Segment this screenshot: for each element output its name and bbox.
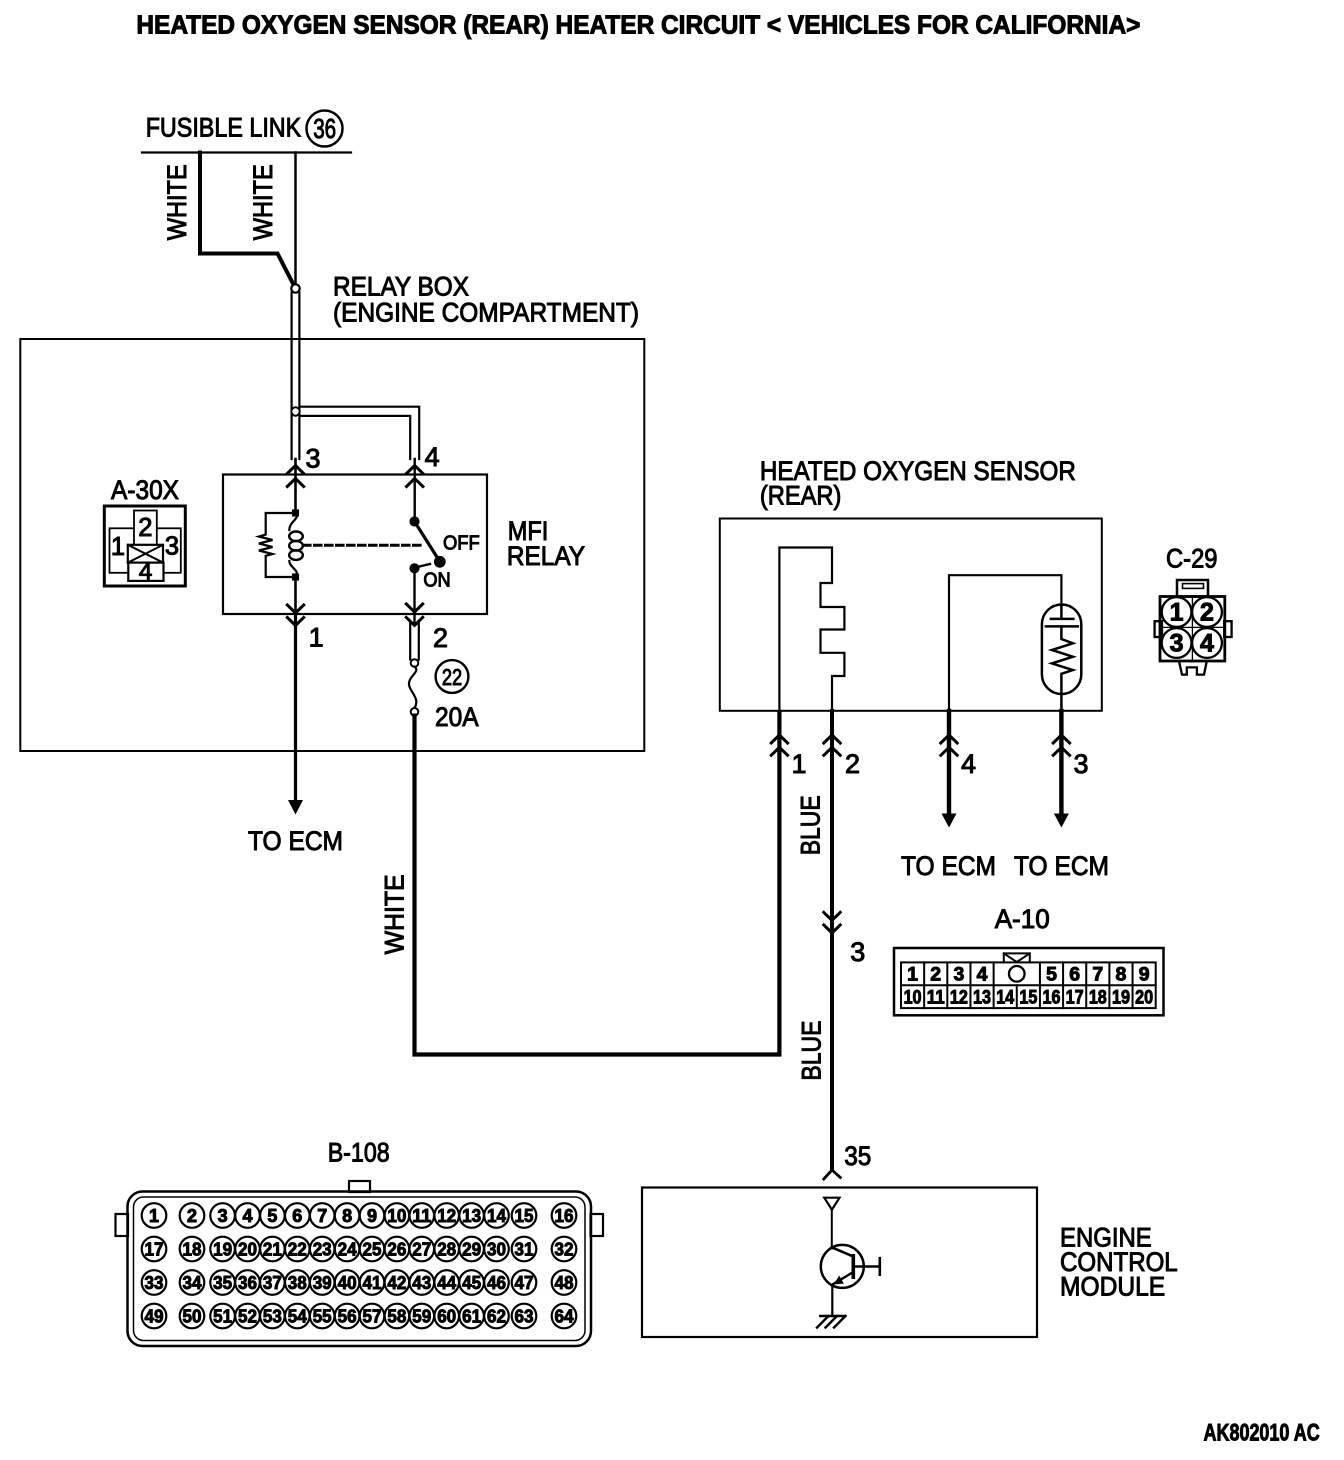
wire pin3 to coil: [294, 459, 297, 513]
svg-text:FUSIBLE LINK: FUSIBLE LINK: [146, 113, 302, 143]
fuse bottom bead: [411, 708, 419, 716]
sensor zirconia element: [779, 548, 844, 712]
svg-text:3: 3: [218, 1206, 228, 1226]
svg-text:ON: ON: [423, 569, 450, 591]
connector C-29 bottom tab: [1179, 661, 1207, 675]
svg-text:17: 17: [145, 1239, 164, 1259]
relay dashed actuation line: [304, 544, 425, 547]
svg-text:19: 19: [1112, 987, 1130, 1009]
connector C-29 pin4: [1192, 628, 1222, 658]
svg-text:WHITE: WHITE: [248, 164, 278, 240]
svg-text:13: 13: [462, 1206, 481, 1226]
sensor pin3 chevrons: [1053, 735, 1069, 743]
svg-text:7: 7: [317, 1206, 327, 1226]
svg-text:13: 13: [973, 987, 991, 1009]
svg-text:5: 5: [1046, 964, 1057, 986]
svg-text:1: 1: [792, 749, 807, 779]
double wire down to pin 3: [291, 293, 293, 460]
fusible link bus wire: [142, 151, 351, 153]
ECM box: [642, 1188, 1037, 1338]
svg-text:TO ECM: TO ECM: [1014, 851, 1109, 881]
svg-text:1: 1: [309, 623, 324, 653]
coil bottom junction: [292, 574, 299, 581]
svg-text:19: 19: [213, 1239, 232, 1259]
svg-text:35: 35: [213, 1273, 232, 1293]
heater plate 1: [1051, 618, 1074, 621]
svg-text:9: 9: [367, 1206, 377, 1226]
ECM wire to transistor: [831, 1210, 833, 1249]
svg-text:20A: 20A: [435, 702, 479, 732]
svg-text:1: 1: [907, 964, 918, 986]
svg-text:15: 15: [1019, 987, 1037, 1009]
svg-text:42: 42: [387, 1273, 406, 1293]
svg-text:12: 12: [950, 987, 968, 1009]
wire pin4 to switch: [414, 459, 416, 522]
heater capsule: [1042, 605, 1081, 695]
svg-text:18: 18: [183, 1239, 202, 1259]
svg-text:21: 21: [263, 1239, 282, 1259]
svg-text:38: 38: [288, 1273, 307, 1293]
svg-text:39: 39: [313, 1273, 332, 1293]
blue wire chevrons: [824, 912, 840, 920]
wire switch to pin2: [413, 568, 415, 623]
svg-text:MODULE: MODULE: [1060, 1272, 1165, 1302]
svg-text:53: 53: [263, 1306, 282, 1326]
svg-text:14: 14: [487, 1206, 506, 1226]
svg-text:3: 3: [305, 444, 320, 474]
svg-text:10: 10: [904, 987, 922, 1009]
svg-text:25: 25: [363, 1239, 382, 1259]
connector C-29 body: [1160, 597, 1225, 662]
fuse element squiggle: [409, 667, 416, 708]
svg-text:WHITE: WHITE: [379, 874, 409, 954]
svg-text:16: 16: [555, 1206, 574, 1226]
svg-text:A-30X: A-30X: [111, 475, 179, 505]
svg-text:8: 8: [1116, 964, 1127, 986]
fuse circle 22: [436, 660, 469, 693]
svg-text:3: 3: [1170, 630, 1184, 658]
sensor heater feed wire: [949, 575, 1061, 711]
sensor box outline: [720, 519, 1102, 711]
svg-text:62: 62: [487, 1306, 506, 1326]
double wire elbow to pin 4: [300, 407, 419, 459]
svg-text:3: 3: [1074, 749, 1089, 779]
svg-text:28: 28: [437, 1239, 456, 1259]
svg-text:58: 58: [387, 1306, 406, 1326]
svg-text:48: 48: [555, 1273, 574, 1293]
svg-text:3: 3: [165, 533, 179, 561]
sensor pin2 chevrons: [824, 735, 840, 743]
sensor pin1 chevrons: [771, 735, 787, 743]
svg-text:4: 4: [242, 1206, 252, 1226]
svg-text:10: 10: [387, 1206, 406, 1226]
heater plate 2: [1046, 625, 1078, 628]
connector C-29 cross lines: [1191, 597, 1193, 662]
svg-text:41: 41: [363, 1273, 382, 1293]
svg-text:11: 11: [412, 1206, 431, 1226]
connector B-108 body: [349, 1181, 370, 1192]
svg-text:16: 16: [1043, 987, 1061, 1009]
svg-text:1: 1: [111, 533, 125, 561]
connector C-29 pin1: [1162, 597, 1192, 627]
svg-text:9: 9: [1139, 964, 1150, 986]
wire white fuse run: [415, 713, 780, 1055]
transistor emitter: [833, 1272, 854, 1284]
svg-text:A-10: A-10: [995, 904, 1050, 934]
svg-text:50: 50: [183, 1306, 202, 1326]
wire pin1 to ECM arrow: [294, 617, 297, 801]
svg-text:63: 63: [515, 1306, 534, 1326]
svg-text:RELAY: RELAY: [507, 541, 585, 571]
svg-text:6: 6: [1069, 964, 1080, 986]
svg-text:2: 2: [930, 964, 941, 986]
svg-text:4: 4: [1200, 630, 1214, 658]
sensor pin2 wire: [830, 711, 834, 1170]
svg-text:B-108: B-108: [328, 1138, 390, 1168]
svg-text:1: 1: [1170, 599, 1184, 627]
svg-text:2: 2: [187, 1206, 197, 1226]
svg-text:8: 8: [342, 1206, 352, 1226]
svg-text:3: 3: [850, 937, 865, 967]
svg-text:AK802010 AC: AK802010 AC: [1204, 1420, 1320, 1447]
svg-text:23: 23: [313, 1239, 332, 1259]
svg-text:HEATED OXYGEN SENSOR (REAR) HE: HEATED OXYGEN SENSOR (REAR) HEATER CIRCU…: [136, 10, 1140, 40]
relay coil resistor: [259, 513, 296, 577]
pin 2 chevrons: [406, 604, 422, 612]
pin 4 chevrons: [407, 466, 423, 474]
svg-text:OFF: OFF: [443, 533, 480, 555]
svg-text:15: 15: [515, 1206, 534, 1226]
svg-text:59: 59: [412, 1306, 431, 1326]
connector A-30X pin2 rect: [134, 511, 157, 556]
svg-text:4: 4: [139, 559, 153, 586]
svg-text:2: 2: [433, 623, 448, 653]
svg-text:2: 2: [138, 514, 152, 542]
svg-text:17: 17: [1066, 987, 1084, 1009]
connector C-29 left tab: [1155, 621, 1162, 637]
svg-text:7: 7: [1092, 964, 1103, 986]
connector A-30X outer: [104, 506, 185, 586]
svg-text:60: 60: [437, 1306, 456, 1326]
svg-text:BLUE: BLUE: [795, 795, 825, 855]
svg-text:12: 12: [437, 1206, 456, 1226]
svg-text:11: 11: [927, 987, 945, 1009]
arrowhead to ECM left: [288, 800, 303, 815]
ground symbol: [820, 1315, 844, 1317]
svg-text:20: 20: [238, 1239, 257, 1259]
wire blue end chevron: [824, 1170, 841, 1179]
pin 1 chevrons: [287, 605, 303, 613]
switch pivot dot: [410, 517, 419, 526]
switch arm: [415, 522, 440, 562]
relay coil loops: [289, 532, 303, 542]
switch ON dot: [410, 564, 419, 573]
fusible link circle 36: [307, 111, 343, 147]
pin 3 chevrons: [287, 466, 303, 474]
heater plate wire: [1060, 605, 1063, 618]
svg-text:3: 3: [953, 964, 964, 986]
svg-text:47: 47: [515, 1273, 534, 1293]
svg-text:20: 20: [1135, 987, 1153, 1009]
wire coil to pin1: [294, 577, 297, 615]
svg-text:49: 49: [145, 1306, 164, 1326]
fuse top bead: [411, 659, 419, 667]
svg-text:TO ECM: TO ECM: [901, 851, 996, 881]
svg-text:4: 4: [425, 442, 440, 472]
svg-text:(ENGINE COMPARTMENT): (ENGINE COMPARTMENT): [333, 298, 639, 328]
svg-text:BLUE: BLUE: [797, 1021, 827, 1081]
heater resistor: [1052, 626, 1073, 711]
svg-text:27: 27: [412, 1239, 431, 1259]
svg-text:43: 43: [412, 1273, 431, 1293]
relay box outline: [20, 339, 644, 751]
transistor circle: [821, 1245, 864, 1288]
svg-text:61: 61: [462, 1306, 481, 1326]
transistor collector: [832, 1247, 854, 1256]
svg-text:24: 24: [338, 1239, 357, 1259]
svg-text:51: 51: [213, 1306, 232, 1326]
svg-text:37: 37: [263, 1273, 282, 1293]
svg-text:5: 5: [267, 1206, 277, 1226]
connector A-30X pin4 rect: [128, 563, 163, 581]
wire white left: [200, 153, 294, 286]
svg-text:57: 57: [363, 1306, 382, 1326]
svg-text:1: 1: [149, 1206, 159, 1226]
arrowhead pin4 to ECM: [942, 814, 957, 828]
connector A-30X row rect: [110, 528, 181, 573]
svg-text:33: 33: [145, 1273, 164, 1293]
svg-text:(REAR): (REAR): [760, 480, 842, 510]
svg-text:22: 22: [442, 664, 462, 690]
svg-text:18: 18: [1089, 987, 1107, 1009]
svg-text:54: 54: [288, 1306, 307, 1326]
svg-text:26: 26: [387, 1239, 406, 1259]
svg-text:4: 4: [977, 964, 988, 986]
svg-text:56: 56: [338, 1306, 357, 1326]
sensor pin4 wire: [947, 711, 951, 815]
connector C-29 right tab: [1224, 621, 1231, 637]
svg-text:64: 64: [555, 1306, 574, 1326]
wire white right: [294, 153, 297, 285]
svg-text:C-29: C-29: [1166, 544, 1218, 574]
svg-text:52: 52: [238, 1306, 257, 1326]
svg-text:32: 32: [555, 1239, 574, 1259]
connector A-30X key box: [128, 545, 163, 563]
svg-text:40: 40: [338, 1273, 357, 1293]
svg-text:36: 36: [313, 113, 336, 144]
svg-text:46: 46: [487, 1273, 506, 1293]
MFI relay box: [223, 475, 487, 615]
svg-text:55: 55: [313, 1306, 332, 1326]
svg-text:2: 2: [845, 749, 860, 779]
svg-text:44: 44: [437, 1273, 456, 1293]
sensor pin4 chevrons: [941, 735, 957, 743]
switch ON stub: [417, 564, 430, 567]
connector C-29 pin3: [1162, 628, 1192, 658]
svg-text:4: 4: [961, 749, 976, 779]
connector C-29 pin2: [1192, 597, 1222, 627]
branch bead: [291, 407, 299, 415]
svg-text:29: 29: [462, 1239, 481, 1259]
switch contact dot OFF: [434, 556, 445, 567]
ECM input triangle: [824, 1198, 839, 1210]
connector C-29 top tab: [1177, 580, 1208, 597]
connector A-10 body: [894, 948, 1164, 1015]
svg-text:34: 34: [183, 1273, 202, 1293]
svg-text:14: 14: [996, 987, 1014, 1009]
svg-text:2: 2: [1200, 599, 1214, 627]
svg-text:30: 30: [487, 1239, 506, 1259]
arrowhead pin3 to ECM: [1054, 814, 1069, 828]
svg-text:35: 35: [844, 1141, 871, 1171]
svg-text:45: 45: [462, 1273, 481, 1293]
svg-text:TO ECM: TO ECM: [248, 826, 343, 856]
connector bead at relay feed: [291, 284, 299, 292]
svg-text:6: 6: [292, 1206, 302, 1226]
transistor base lead: [853, 1265, 879, 1267]
svg-text:WHITE: WHITE: [162, 164, 192, 240]
svg-text:22: 22: [288, 1239, 307, 1259]
svg-text:31: 31: [515, 1239, 534, 1259]
transistor emitter wire: [831, 1287, 833, 1317]
svg-text:36: 36: [238, 1273, 257, 1293]
transistor base bar: [851, 1256, 855, 1277]
coil top junction: [292, 510, 299, 517]
fusible link holder double line: [409, 622, 411, 660]
sensor pin3 wire: [1059, 711, 1063, 815]
